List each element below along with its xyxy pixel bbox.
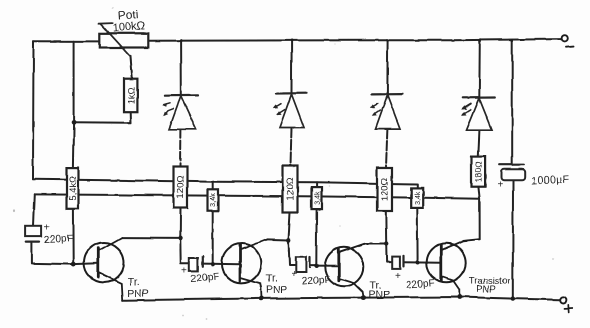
transistor Q1 (84, 238, 124, 301)
wire 1000uF column top (511, 40, 513, 164)
wire bottom rail (123, 297, 561, 300)
terminal plus (bottom right) (560, 297, 572, 313)
svg-text:120Ω: 120Ω (285, 177, 296, 200)
wire R4 bottom through line B to Q4 collector (478, 187, 479, 240)
wire LED1 column (180, 41, 182, 96)
svg-text:120Ω: 120Ω (176, 175, 187, 198)
wire base node to Q1 (73, 262, 98, 265)
wire C2 right to Q3 base (310, 265, 339, 267)
wire LED2 column (291, 40, 293, 93)
LED D3 (370, 94, 403, 129)
wire LED3 column (386, 40, 388, 94)
wire poti wiper drop to R 1k (131, 56, 133, 78)
wire RB2 bottom lead (212, 211, 214, 265)
svg-text:3,4k: 3,4k (314, 191, 321, 205)
wire C0 bottom to Q1 base (32, 242, 73, 264)
wire R3 bottom to collector node (385, 211, 387, 244)
wire junction to RB1 top (72, 122, 75, 167)
capacitor C2 220pF (296, 257, 310, 272)
resistor RB2 3,4k box (208, 190, 219, 211)
wire RB2 top lead (212, 182, 214, 190)
transistor Q4 (427, 239, 480, 297)
wire LED4 column (478, 40, 481, 97)
wire RB4 top lead (416, 184, 418, 188)
svg-text:180Ω: 180Ω (473, 161, 483, 182)
svg-text:220pF: 220pF (301, 275, 330, 288)
svg-text:220pF: 220pF (406, 278, 435, 291)
resistor R4 180R box (472, 157, 486, 187)
wire RB4 bottom lead (416, 207, 418, 262)
svg-text:PNP: PNP (369, 289, 391, 301)
wire C1 right to Q2 base (203, 263, 240, 266)
resistor RP 1k box (124, 79, 137, 113)
wire Q1 collector line (122, 237, 181, 239)
resistor RB1 5,4k box (67, 168, 79, 209)
resistor R2 120R box (283, 166, 298, 213)
wire RB1 bottom to base node (72, 209, 74, 264)
svg-text:PNP: PNP (266, 284, 288, 296)
wire 5k4 column from rail to junction (73, 41, 75, 122)
wire left rail (32, 41, 35, 179)
resistor R3 120R box (377, 168, 392, 211)
svg-text:1kΩ: 1kΩ (127, 87, 138, 104)
wire collector node 2 down to C2 (289, 240, 296, 266)
wire 1000uF bottom to rail (512, 180, 514, 298)
capacitor C0 220pF (25, 226, 41, 242)
wire collector node down to C1 (180, 238, 189, 263)
wire Q2 collector line (268, 238, 289, 241)
svg-text:PNP: PNP (127, 288, 149, 300)
resistor R1 120R box (174, 167, 188, 208)
LED D1 (162, 95, 197, 129)
wire line B down to C0 (33, 194, 34, 225)
svg-text:+: + (395, 271, 401, 282)
svg-text:3,4k: 3,4k (415, 191, 422, 205)
wire RB3 top lead (316, 182, 318, 187)
potentiometer P1 wiper diagonal (99, 23, 131, 56)
wire RB3 bottom lead (315, 209, 317, 266)
wire Q3 collector line (366, 243, 387, 245)
transistor Q2 (222, 239, 268, 298)
svg-text:220pF: 220pF (44, 233, 73, 245)
wire collector node 3 down to C3 (386, 244, 392, 263)
svg-text:1000µF: 1000µF (531, 173, 570, 187)
resistor RB4 3,4k box (411, 188, 423, 208)
svg-text:220pF: 220pF (190, 272, 219, 285)
capacitor C3 220pF (392, 256, 404, 269)
svg-text:+: + (291, 270, 297, 281)
node line A (base-resistor supply) (33, 179, 417, 184)
svg-text:5,4kΩ: 5,4kΩ (67, 176, 77, 201)
wire C3 right to Q4 base (404, 261, 442, 264)
svg-text:3,4k: 3,4k (210, 193, 217, 207)
LED D2 (273, 93, 307, 127)
wire R2 bottom to collector node (289, 213, 291, 241)
wire R 1k bottom to junction (74, 112, 131, 123)
LED D4 (461, 98, 495, 131)
capacitor C5 1000uF (499, 165, 525, 181)
svg-text:+: + (182, 266, 188, 277)
potentiometer P1 100k box (100, 33, 149, 47)
svg-text:100kΩ: 100kΩ (112, 20, 145, 34)
transistor Q3 (325, 244, 366, 298)
wire top supply rail (34, 40, 100, 42)
terminal minus (top right) (561, 35, 573, 47)
svg-text:Tr.: Tr. (128, 276, 140, 288)
svg-text:+: + (497, 180, 503, 191)
svg-text:PNP: PNP (476, 284, 496, 295)
node line B (feedback line) (34, 194, 479, 198)
svg-text:+: + (44, 223, 50, 234)
resistor RB3 3,4k box (312, 187, 322, 209)
capacitor C1 220pF (189, 257, 203, 271)
svg-text:Tr.: Tr. (266, 273, 278, 285)
svg-text:120Ω: 120Ω (380, 178, 391, 201)
wire R1 bottom to collector node (179, 208, 181, 238)
